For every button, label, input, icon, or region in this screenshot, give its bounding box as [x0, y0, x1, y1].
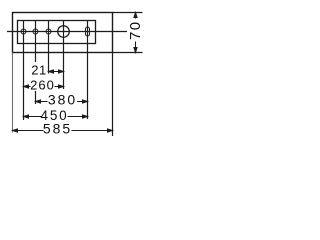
outer fixture body rectangle — [13, 13, 113, 53]
dimension 260 line — [24, 85, 64, 88]
dimension 585 line — [13, 129, 113, 132]
svg-text:260: 260 — [30, 78, 55, 93]
svg-text:585: 585 — [43, 121, 72, 137]
big center hole — [58, 26, 70, 38]
585 left extension line — [12, 53, 14, 133]
inner face rectangle — [18, 21, 96, 44]
dimension 585 text — [44, 124, 72, 135]
dimension 380 line — [36, 100, 88, 103]
dimension 450 line — [24, 115, 88, 118]
dimension 21 line — [49, 70, 64, 73]
dimension 70 text (rotated) — [129, 19, 141, 42]
dimension 70 line — [134, 13, 137, 53]
center line of big hole (21/260 right extension) — [63, 21, 65, 90]
svg-text:70: 70 — [127, 20, 144, 40]
dimension 380 text — [48, 95, 78, 106]
center line of hole H2 lower segment / 380 left bar — [35, 91, 37, 105]
mounting hole H2 — [33, 29, 38, 34]
center line of hole H3 (21 left extension) — [48, 21, 50, 74]
center line of hole H1 (260/450 left extension) — [23, 21, 25, 120]
mounting hole H3 — [46, 29, 51, 34]
dimension 260 text — [31, 81, 55, 92]
585 right extension line — [112, 53, 114, 137]
dimension 450 text — [42, 111, 68, 122]
horizontal center line — [7, 31, 127, 33]
70 top extension line — [113, 12, 143, 14]
center line of slot (380/450 right extension) — [87, 21, 89, 120]
mounting slot — [86, 27, 90, 36]
mounting hole H1 — [21, 29, 26, 34]
70 bottom extension line — [113, 52, 143, 54]
svg-text:380: 380 — [48, 92, 77, 108]
center line of hole H2 (380 left extension) — [35, 21, 37, 62]
svg-text:21: 21 — [31, 63, 46, 78]
